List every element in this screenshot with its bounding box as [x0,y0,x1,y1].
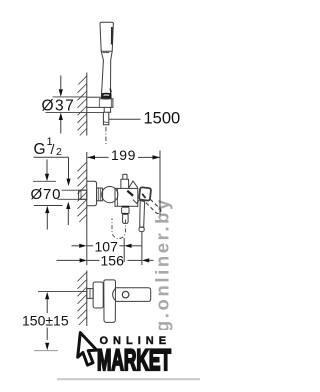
svg-text:Ø70: Ø70 [31,186,62,203]
dim 156 [57,232,154,266]
dim Ø37 [46,76,105,134]
svg-text:og.onliner.by: og.onliner.by [152,197,173,346]
svg-text:150±15: 150±15 [22,313,69,329]
logo bottom gray line [57,378,200,380]
dashed handle alt position [146,199,161,214]
dim 107 [72,238,143,262]
watermark onliner.by [152,197,173,346]
flange (top view) [93,282,103,308]
shower outlet below body [122,206,130,224]
hose loop centerline [112,218,126,238]
dimension texts [22,97,180,328]
svg-text:199: 199 [111,147,136,163]
hose centerline [105,127,107,146]
holder clamp ring [102,93,111,99]
wall (bottom drawing) [78,271,87,327]
150 reference line [38,291,87,293]
union nut [97,188,103,201]
svg-text:MARKET: MARKET [97,344,171,377]
lever strip (top view, pointing to viewer) [104,280,116,323]
svg-text:/: / [51,141,55,157]
lever handle (down position) [139,201,145,232]
dark pivot mark [127,191,133,196]
mixer body [115,188,138,206]
top diverter stub [121,174,129,188]
mixer flange (side view) [87,181,97,205]
dim Ø70 [33,160,63,230]
dim 199 [88,151,161,216]
svg-text:G: G [34,141,46,158]
G1/2 nipple [79,190,87,199]
svg-text:1500: 1500 [144,110,181,128]
hand shower handle [101,51,112,93]
roof wedge on body [129,181,138,188]
nipple (top view) [87,289,93,299]
svg-text:Ø37: Ø37 [42,97,76,114]
handle knob [139,187,151,201]
wall (upper drawing) [78,73,87,136]
hose connector below holder [103,107,110,124]
hand shower head [100,22,113,52]
holder arm [87,97,113,107]
body bar (top view) [113,288,151,302]
svg-text:156: 156 [101,252,125,268]
svg-text:2: 2 [56,146,62,158]
logo cursor icon [78,333,97,366]
V notch under body [133,200,139,204]
wall (middle drawing) [78,152,87,265]
G 1/2 label leader [34,157,71,225]
logo white backdrop [58,330,200,378]
cartridge ball [102,187,118,203]
leader line to 1500 [109,118,141,120]
dim 150±15 [34,292,74,351]
G1/2 nipple extension lines [58,190,87,199]
